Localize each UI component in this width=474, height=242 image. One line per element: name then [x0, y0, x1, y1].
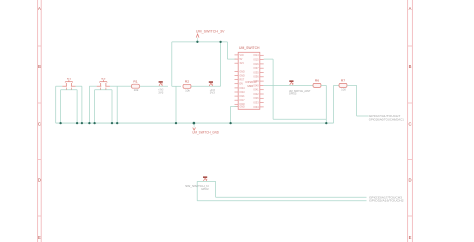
svg-text:R6: R6: [315, 79, 320, 83]
wire +3V rail: [172, 41, 228, 43]
net flag UM_SWITCH_A/INT: [289, 81, 311, 96]
svg-text:5V: 5V: [240, 59, 243, 61]
svg-text:IO21: IO21: [240, 96, 246, 98]
wire bus up to R7: [334, 85, 340, 123]
svg-text:C: C: [408, 121, 411, 126]
svg-text:EN: EN: [240, 84, 244, 86]
svg-text:C: C: [38, 121, 41, 126]
svg-text:A: A: [38, 6, 41, 11]
wire R2 to +3V3 flag: [191, 85, 221, 87]
svg-text:D: D: [38, 177, 41, 182]
svg-text:GND: GND: [240, 106, 245, 108]
svg-text:GND: GND: [240, 71, 245, 73]
svg-text:3V3: 3V3: [210, 92, 216, 95]
wire rail down-left to R2 row: [172, 42, 181, 86]
resistor R2 10k: [183, 80, 191, 93]
U1 value text: [246, 80, 258, 88]
net label GPIO right-top: [369, 114, 405, 121]
wire U1 row8 to net flag INT: [264, 84, 313, 86]
+3V3 supply flag after R2: [209, 81, 216, 94]
wire U1 pin row2 right loop: [264, 59, 327, 119]
svg-text:IO15: IO15: [253, 59, 259, 61]
svg-text:GPIO2: GPIO2: [201, 187, 209, 191]
svg-text:IO17: IO17: [240, 100, 246, 102]
svg-text:IO16: IO16: [253, 64, 259, 66]
wire R2-left drop to GND bus: [175, 86, 177, 124]
resistor R6: [313, 79, 321, 88]
pushbutton S1: [56, 78, 82, 123]
svg-text:UM_SWITCH_GND: UM_SWITCH_GND: [192, 130, 219, 134]
wire R6 down to bus: [321, 85, 327, 124]
frame row letters right: [408, 6, 411, 240]
svg-text:IO26: IO26: [253, 98, 259, 100]
svg-text:IO33: IO33: [253, 102, 259, 104]
svg-text:R1: R1: [133, 80, 138, 84]
junction dots on GND bus under buttons: [59, 122, 118, 124]
svg-text:GPIO32/A16/TOUCH2: GPIO32/A16/TOUCH2: [369, 198, 404, 202]
sheet frame right border: [408, 0, 413, 242]
U1 title UM_SWITCH: [239, 46, 260, 50]
wire U1 GND to bus: [229, 106, 236, 124]
svg-text:10k: 10k: [185, 89, 191, 92]
svg-text:S1: S1: [67, 78, 72, 80]
wire S2 to R1: [117, 85, 131, 87]
wire R7 to label: [347, 85, 369, 116]
wire SW left drop: [197, 181, 366, 200]
wire rail drop to R2 row right: [219, 41, 221, 87]
svg-text:UM_SWITCH: UM_SWITCH: [239, 46, 260, 50]
svg-text:B: B: [409, 64, 412, 69]
svg-text:D: D: [408, 177, 411, 182]
svg-text:A: A: [409, 6, 412, 11]
svg-text:B: B: [38, 64, 41, 69]
svg-text:IO43: IO43: [240, 92, 246, 94]
svg-text:3V3: 3V3: [158, 92, 164, 95]
svg-text:IO14: IO14: [253, 55, 259, 57]
svg-text:10k: 10k: [134, 89, 140, 92]
svg-text:IO40: IO40: [253, 85, 259, 87]
+3V3 supply flag after R1: [158, 81, 164, 94]
svg-text:IO41: IO41: [253, 90, 259, 92]
op-amp U1 box (module UM_SWITCH): [238, 52, 260, 109]
svg-text:GPIO5: GPIO5: [289, 92, 297, 96]
svg-text:R2: R2: [185, 80, 190, 84]
svg-text:IO34: IO34: [253, 107, 259, 109]
frame row letters left: [38, 6, 41, 240]
sheet frame left border: [38, 0, 42, 242]
wire rail to U1 pin VIN: [227, 42, 236, 59]
svg-text:GPIO26/A0/TOUCH6/DAC1: GPIO26/A0/TOUCH6/DAC1: [369, 117, 405, 121]
svg-text:S2: S2: [101, 78, 106, 80]
wire GND bus: [56, 122, 334, 124]
svg-text:UM_SWITCH_3V: UM_SWITCH_3V: [196, 29, 226, 33]
svg-text:VIN: VIN: [240, 55, 244, 57]
U1 pin names: [240, 55, 260, 109]
svg-text:IO35: IO35: [253, 72, 259, 74]
pushbutton S2: [89, 78, 117, 123]
supply symbol UM_SWITCH_GND: [192, 122, 219, 135]
svg-text:E: E: [38, 235, 41, 240]
net flag SW_SWITCH_N: [185, 177, 209, 192]
supply symbol UM_SWITCH_3V: [196, 29, 226, 43]
svg-text:IO36: IO36: [253, 77, 259, 79]
svg-text:100: 100: [341, 88, 347, 91]
svg-text:E: E: [409, 235, 412, 240]
wire R1 to +3V3 flag: [140, 85, 169, 87]
svg-text:3V3: 3V3: [240, 63, 245, 65]
svg-text:UNO: UNO: [248, 84, 254, 88]
svg-text:RST: RST: [240, 79, 245, 81]
svg-text:IO37: IO37: [253, 68, 259, 70]
wire SW flag row: [197, 180, 215, 182]
resistor R1 10k: [132, 80, 140, 93]
svg-text:IO44: IO44: [240, 88, 246, 90]
svg-text:IO42: IO42: [253, 94, 259, 96]
svg-text:R7: R7: [341, 79, 346, 83]
resistor R7 100: [339, 79, 347, 92]
wire SW right drop: [216, 181, 367, 197]
svg-text:GND: GND: [240, 75, 245, 77]
U1 pin stubs: [235, 55, 264, 107]
net label GPIO right-bottom: [369, 195, 404, 202]
